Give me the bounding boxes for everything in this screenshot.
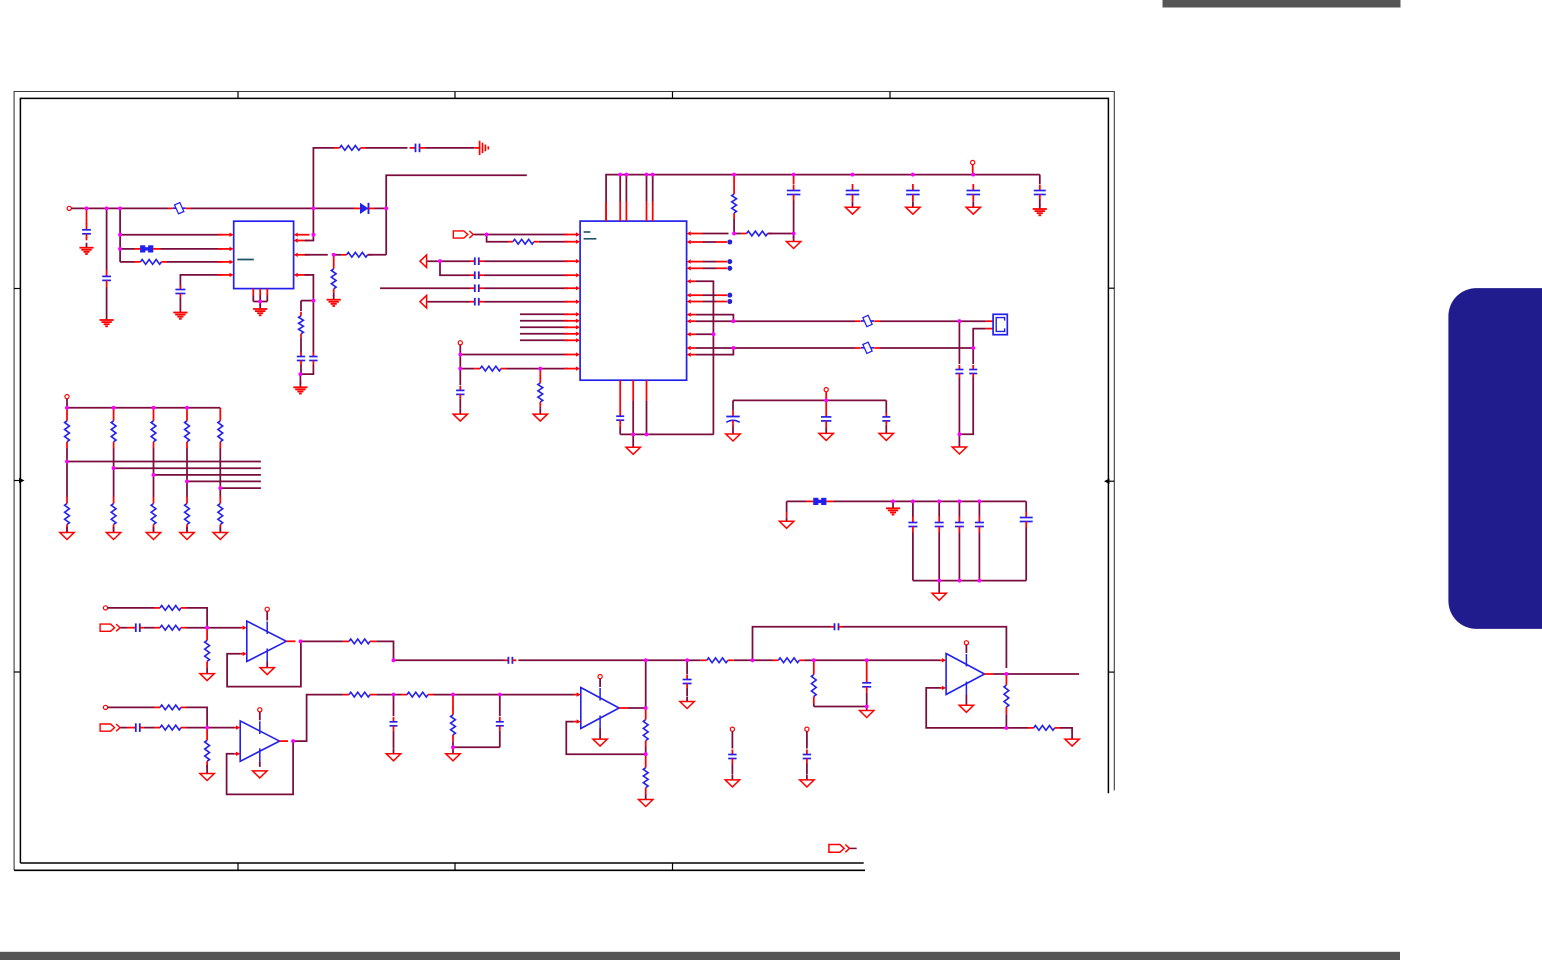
junction LPF b — [451, 693, 455, 697]
terminal VREF — [458, 341, 462, 345]
wire f3 lower — [958, 533, 960, 581]
U3B feedback loop — [227, 741, 294, 794]
mix wire to R21 — [687, 659, 701, 661]
junction RTC — [824, 399, 828, 403]
resistor RN1b — [66, 497, 68, 504]
wire XTAL2 riser to connector — [973, 329, 986, 348]
C33 tail — [686, 688, 688, 696]
resistor R7 — [474, 368, 480, 370]
U2 pin 3 — [564, 287, 576, 289]
fuse F1 — [173, 207, 186, 209]
resistor R23 — [645, 713, 647, 720]
wire U1 pin6 to node — [305, 254, 328, 256]
op-amp U3A — [247, 621, 286, 661]
ground arrow C20 — [825, 428, 827, 434]
resistor R4 — [333, 265, 335, 269]
fuse F2 — [861, 320, 874, 322]
resistor RN5a — [219, 414, 221, 421]
U3A V- lead — [266, 662, 268, 668]
junction earth tap — [891, 500, 895, 504]
junction opamp1 +in — [205, 626, 209, 630]
wire pin MCLR to node — [703, 233, 729, 235]
ground arrow RN5 — [219, 527, 221, 533]
ground arrow C21 — [885, 428, 887, 434]
wire node c to opamp3 — [500, 694, 574, 696]
wire RTC horizontal — [733, 399, 886, 401]
wire XTAL1 to connector — [959, 320, 985, 322]
U4A output lead — [619, 707, 628, 709]
wire VSS1 down right side — [696, 281, 714, 434]
regulator U1 — [234, 221, 294, 288]
U1 pin 1 — [218, 234, 230, 236]
wire filter gnd leg — [786, 501, 788, 512]
wire SOSC1 to node — [696, 347, 734, 349]
mix wire right segment a — [646, 659, 687, 661]
junction f1 — [911, 500, 915, 504]
op-amp U4B — [946, 654, 984, 695]
wire C28 to R12 — [144, 627, 154, 629]
capacitor C17 — [912, 184, 914, 191]
U4A V+ inner — [599, 688, 601, 701]
wire U3B out riser — [293, 695, 343, 742]
wire XTAL1 down to C14 — [958, 321, 960, 364]
ground (earth) C19 — [1039, 204, 1041, 209]
junction bus p4 — [651, 173, 655, 177]
no-connect 1 — [727, 240, 732, 245]
C36 tail — [731, 764, 733, 775]
wire XTAL2 down to C15 — [972, 348, 974, 364]
junction rail dots noted above — [66, 408, 68, 415]
filter gnd bus — [913, 580, 1026, 582]
wire R16 to junction — [187, 727, 208, 729]
wire R11 corner — [187, 608, 208, 628]
signal line RN3 — [154, 474, 261, 476]
terminal VBAT — [824, 388, 828, 392]
wire bead to caps — [826, 500, 833, 502]
U4B V+ lead — [965, 645, 967, 653]
junction U3A out — [299, 640, 303, 644]
navigation tab (navy) — [1448, 288, 1542, 629]
snubber gnd lead — [299, 374, 301, 384]
capacitor C22 (polarized) — [732, 411, 734, 417]
wire RTC left leg — [732, 400, 734, 410]
bus corner down to C19 — [1039, 175, 1041, 184]
capacitor C33 — [686, 675, 688, 680]
resistor R13 — [206, 633, 208, 640]
U1 pin 8 — [298, 234, 310, 236]
junction fg2 — [958, 579, 962, 583]
U2 bottom pin c — [646, 380, 648, 401]
wire to U1 pin 1 — [120, 234, 222, 236]
terminal pull-up rail — [65, 395, 69, 399]
C37 tail — [806, 764, 808, 775]
U4A V- lead — [599, 729, 601, 740]
U1 pin 5 — [298, 274, 310, 276]
U1 pin 4 — [218, 274, 230, 276]
junction U1 pin2 net — [118, 247, 122, 251]
wire filter to bead — [787, 500, 806, 502]
signal line RN4 — [187, 480, 261, 482]
LPF a shunt — [393, 695, 395, 716]
ground arrow U3A — [266, 667, 268, 669]
wire RN5 mid — [219, 448, 221, 497]
wire VSS2 stub — [696, 333, 714, 335]
wire U1 pin5 net — [305, 275, 314, 301]
ground arrow C17 — [912, 201, 914, 207]
VBAT lead — [825, 392, 827, 401]
junction VIN a — [85, 207, 89, 211]
C22 to gnd — [732, 427, 734, 429]
junction gnd bus b — [645, 433, 649, 437]
wire R27 corner — [1060, 728, 1072, 734]
wire R1 to U1 pin 3 — [167, 261, 223, 263]
capacitor C35 — [866, 677, 868, 683]
capacitor C6 — [312, 353, 314, 357]
wire RN2 mid — [113, 448, 115, 497]
chassis ground (antenna stub) — [474, 147, 480, 149]
junction snubber — [312, 299, 316, 303]
capacitor C15 — [972, 365, 974, 370]
ground arrow U2 — [632, 442, 634, 448]
junction dots overlay — [65, 173, 1008, 756]
wire A1 riser — [440, 261, 470, 275]
C27 lower — [1025, 528, 1027, 581]
wire P1 to U2 — [474, 234, 568, 236]
bottom toolbar bar — [0, 952, 1400, 960]
junction fb tap — [751, 658, 755, 662]
ref B lead — [806, 731, 808, 748]
wire div a to div b — [814, 659, 867, 661]
wire node to R19 — [394, 694, 402, 696]
wire f2 lower — [938, 533, 940, 581]
resistor R3 — [342, 254, 347, 256]
wire VOUT riser — [385, 208, 387, 254]
junction div gnd — [865, 705, 869, 709]
junction XTAL2 — [971, 346, 975, 350]
sheet outer border — [14, 92, 1114, 871]
resistor R15 — [154, 706, 160, 708]
nc stub 4 — [703, 294, 716, 296]
capacitor C12 — [619, 412, 621, 416]
wire P1 down to R6 — [487, 235, 509, 242]
C13 node to gnd — [793, 234, 795, 239]
junction U4B out — [1005, 672, 1009, 676]
ground arrow R20 — [452, 747, 454, 754]
capacitor C20 — [825, 409, 827, 417]
wire RN4 mid — [186, 448, 188, 497]
wire VREF to U2 — [460, 354, 568, 356]
junction U4A out — [644, 706, 648, 710]
U2 nc pin 3 — [691, 267, 704, 269]
ferrite bead FB2 — [813, 498, 818, 505]
junction f3 — [958, 500, 962, 504]
U2 nc pin 5 — [691, 301, 704, 303]
ground arrow R13 — [206, 668, 208, 674]
terminal U3A V+ — [265, 607, 269, 611]
capacitor C18 — [972, 184, 974, 191]
XTAL gnd lead — [958, 434, 960, 441]
ground arrow R17 — [206, 765, 208, 774]
wire A2 to C10 — [427, 301, 470, 303]
junction LPF a — [392, 693, 396, 697]
wire U4A out to vertical — [628, 707, 646, 709]
junction div b — [865, 658, 869, 662]
wire f4 lower — [978, 533, 980, 581]
R9 lower lead to pin row — [733, 219, 735, 234]
junction VREF a — [458, 353, 462, 357]
junction LPF c — [498, 693, 502, 697]
terminal U3B V+ — [258, 708, 262, 712]
capacitor C31 — [499, 717, 501, 722]
wire OSC top to fuse — [733, 320, 855, 322]
junction VIN b — [105, 207, 109, 211]
terminal ref B — [805, 727, 809, 731]
U2 pin OSC1 — [691, 314, 696, 316]
U2 pin AVDD — [564, 354, 576, 356]
capacitor C10 — [470, 301, 475, 303]
U4B V- lead — [965, 695, 967, 706]
capacitor C11 — [459, 386, 461, 391]
capacitor C23 — [912, 517, 914, 523]
ground (earth) for R4 — [333, 295, 335, 300]
junction opamp2 +in — [205, 726, 209, 730]
U1 label line — [237, 259, 254, 261]
junction snubber gnd — [299, 372, 303, 376]
VDD terminal lead — [972, 165, 974, 175]
junction RN4 tap — [185, 480, 189, 484]
left branch down — [300, 301, 302, 311]
no-connect 3 — [727, 266, 732, 271]
wire C3 to ground — [179, 298, 181, 308]
junction C33 tap — [685, 658, 689, 662]
R25 tail to bus — [813, 704, 815, 707]
junction VSS tie — [712, 332, 716, 336]
capacitor C14 — [958, 365, 960, 370]
junction VIN d — [312, 207, 316, 211]
junction gnd bus a — [631, 433, 635, 437]
wire VREF down — [459, 345, 461, 369]
LPF c shunt — [499, 695, 501, 716]
wire bias2 to R15 — [108, 706, 155, 708]
ground (earth) filter — [892, 502, 894, 509]
capacitor C36 — [731, 750, 733, 755]
junction bus c17 — [911, 173, 915, 177]
wire R6 to U2 — [539, 241, 568, 243]
junction MCLR — [732, 232, 736, 236]
resistor R14 — [343, 640, 349, 642]
R23 tail to node — [645, 747, 647, 754]
junction U3B out — [291, 739, 295, 743]
wire R12 to junction — [187, 627, 208, 629]
terminal bias 2 — [103, 705, 107, 709]
output arrow A2 — [420, 295, 427, 308]
U3B output lead — [280, 740, 289, 742]
U4B output lead — [985, 673, 994, 675]
wire RTC right leg — [885, 400, 887, 413]
fuse F3 — [861, 347, 874, 349]
capacitor C37 — [806, 750, 808, 755]
wire R18 to node — [376, 694, 393, 696]
capacitor C32 — [504, 659, 508, 661]
wire f2 upper — [938, 501, 940, 516]
U3B V- inner — [259, 748, 261, 761]
wire left stub row 3 — [380, 287, 470, 289]
junction bus p2 — [625, 173, 629, 177]
wire snubber left branch — [301, 300, 313, 302]
U3A V+ lead — [266, 611, 268, 620]
wire node d down to pin8 junction — [312, 208, 314, 234]
resistor R22 — [772, 659, 778, 661]
input port P1 — [453, 231, 468, 238]
capacitor C26 — [978, 517, 980, 523]
ground arrow C22 — [732, 429, 734, 435]
wire SOSC2 to node — [696, 348, 734, 355]
signal line RN2 — [114, 467, 261, 469]
wire C2 lower lead — [106, 287, 108, 315]
capacitor C3 — [179, 286, 181, 290]
filter gnd red lead — [786, 512, 788, 517]
wire node c down to U1 pins — [119, 208, 121, 262]
capacitor C34 — [831, 626, 835, 628]
wire OSC1 to node — [696, 315, 734, 322]
wire junction to opamp1 — [207, 627, 241, 629]
wire F1 right red lead — [186, 207, 191, 209]
wire OSC2 to node — [696, 320, 734, 322]
U1 pin 2 — [218, 248, 230, 250]
wire C3 to U1 pin 4 — [180, 275, 222, 287]
capacitor C16 — [852, 184, 854, 191]
no-connect 2 — [727, 259, 732, 264]
R8 to gnd — [539, 407, 541, 409]
nc stub 5 — [703, 301, 716, 303]
ground (earth) for C3 — [179, 308, 181, 313]
ground arrow U3B — [259, 770, 261, 772]
wire f4 upper — [978, 501, 980, 516]
resistor RN2a — [113, 414, 115, 421]
junction C13 — [792, 232, 796, 236]
ground arrow filter — [786, 517, 788, 521]
C14 to gnd node — [958, 378, 960, 435]
ground arrow RN3 — [153, 527, 155, 533]
wire R7 to U2 — [507, 368, 568, 370]
ground arrow C37 — [806, 775, 808, 780]
no-connect 5 — [727, 299, 732, 304]
junction U1 gnd — [258, 300, 262, 304]
wire R3 to VOUT riser — [368, 254, 387, 256]
resistor RN4a — [186, 414, 188, 421]
junction RN5 tap — [218, 486, 222, 490]
ground arrow C30 — [393, 748, 395, 754]
wire filter right leg — [1025, 501, 1027, 511]
junction R7/R8 — [538, 367, 542, 371]
wire R2 to C4 — [366, 147, 407, 149]
ground arrow for R8 — [539, 409, 541, 415]
C33 shunt — [686, 660, 688, 674]
capacitor C24 — [938, 517, 940, 523]
wire node d up to feedback resistor — [313, 148, 334, 209]
junction U1 pin1 net — [118, 233, 122, 237]
resistor R20 — [452, 708, 454, 715]
junction mix node — [392, 658, 396, 662]
wire R10 to C13 node — [768, 233, 794, 235]
resistor R24 — [645, 761, 647, 768]
capacitor C7 — [470, 260, 475, 262]
gnd bus lead — [632, 434, 634, 442]
U2 pin VSS2 — [691, 333, 696, 335]
no-connect 4 — [727, 293, 732, 298]
wire junction to opamp2 — [207, 727, 234, 729]
capacitor C5 — [300, 353, 302, 357]
U2 pin VSS1 — [691, 280, 696, 282]
wire fuse to crystal node — [880, 320, 959, 322]
wire node to R3 — [334, 254, 342, 256]
C13 top lead to bus — [793, 175, 795, 184]
R20 tail to node — [452, 742, 454, 748]
U2 pin 2 — [564, 274, 576, 276]
junction OSC top — [732, 319, 736, 323]
resistor R25 — [813, 668, 815, 675]
U2 nc pin 1 — [691, 241, 704, 243]
junction fg3 — [978, 579, 982, 583]
U4A feedback loop — [566, 722, 645, 755]
U2 pin OSC2 — [691, 320, 696, 322]
resistor RN2b — [113, 497, 115, 504]
wire f3 upper — [958, 501, 960, 516]
resistor R5 — [300, 312, 302, 316]
vertical out3 top to out — [645, 660, 647, 708]
resistor R26 — [1005, 678, 1007, 685]
wire C7 to U2 — [484, 260, 568, 262]
wire fb to R27 — [1006, 727, 1028, 729]
filter gnd bus lead — [938, 581, 940, 588]
resistor RN3a — [153, 414, 155, 421]
junction OSC bot — [732, 346, 736, 350]
input port P3 — [100, 724, 115, 731]
wire diode to node — [375, 207, 387, 209]
U3A output lead — [286, 640, 295, 642]
junction bus c16 — [851, 173, 855, 177]
U2 nc pin 4 — [691, 294, 704, 296]
resistor R16 — [154, 727, 160, 729]
ground arrow RN1 — [66, 527, 68, 533]
capacitor C1 — [86, 223, 88, 230]
junction XTAL gnd — [958, 432, 962, 436]
wire node b to node c — [453, 694, 500, 696]
junction pin8 net — [312, 233, 316, 237]
resistor R18 — [343, 694, 349, 696]
ground arrow divider — [866, 707, 868, 711]
ground arrow C33 — [686, 697, 688, 702]
resistor R1 — [134, 261, 140, 263]
junction f4 — [978, 500, 982, 504]
resistor RN3b — [153, 497, 155, 504]
C31 to corner — [499, 731, 501, 748]
wire f1 upper — [912, 501, 914, 516]
wire bias1 to R11 — [108, 607, 155, 609]
signal line RN1 — [67, 461, 261, 463]
ground arrow RN4 — [186, 527, 188, 533]
junction U4B fb — [1005, 726, 1009, 730]
C11 to gnd — [459, 399, 461, 409]
border zone ticks top — [237, 92, 239, 99]
capacitor C9 — [470, 287, 475, 289]
U1 pin 6 — [298, 254, 310, 256]
C19 to earth — [1039, 199, 1041, 206]
U3A V+ inner — [266, 622, 268, 635]
U2 top supply pins — [619, 175, 621, 202]
wire C13 bottom to node — [793, 201, 795, 234]
U4A V+ lead — [599, 679, 601, 687]
